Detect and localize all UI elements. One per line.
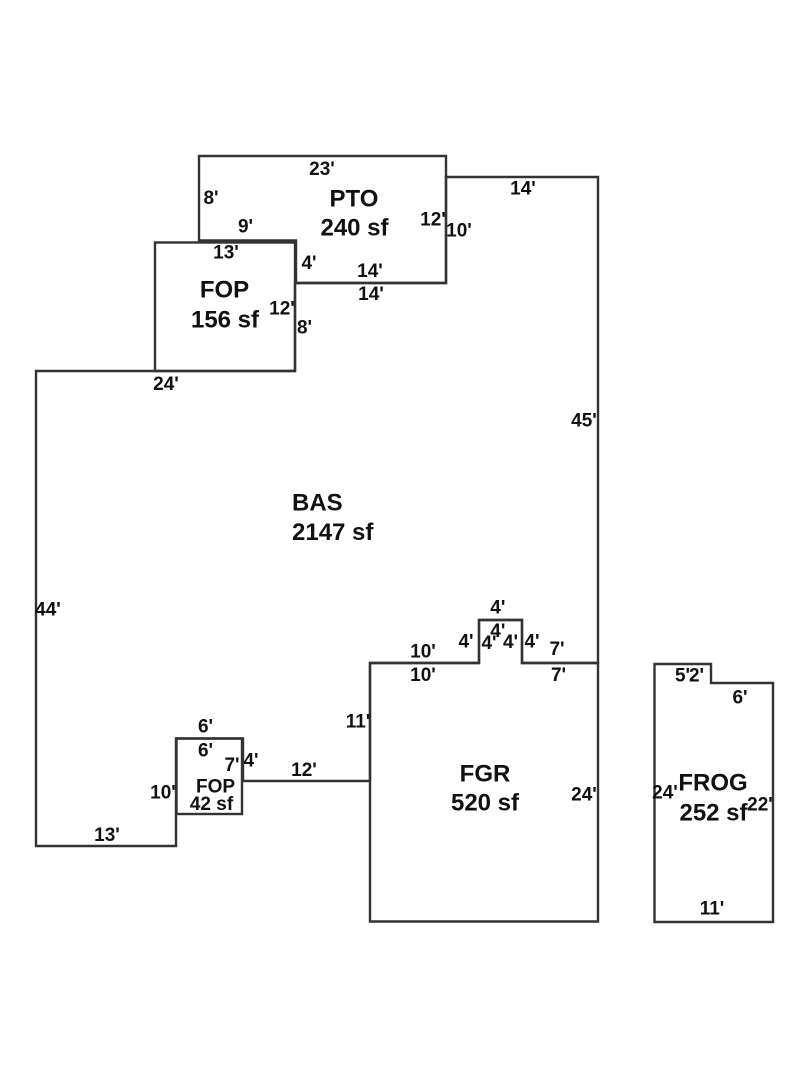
svg-text:14': 14' <box>357 261 383 282</box>
svg-text:6': 6' <box>198 741 213 762</box>
svg-text:6': 6' <box>198 717 213 738</box>
svg-text:10': 10' <box>446 221 472 242</box>
svg-text:FGR: FGR <box>460 761 511 788</box>
svg-text:22': 22' <box>747 795 773 816</box>
svg-text:10': 10' <box>410 642 436 663</box>
FROG outline <box>655 664 774 922</box>
svg-text:FROG: FROG <box>678 770 747 797</box>
svg-text:44': 44' <box>35 600 61 621</box>
svg-text:240 sf: 240 sf <box>320 215 389 242</box>
svg-text:PTO: PTO <box>330 186 379 213</box>
svg-text:2': 2' <box>689 666 704 687</box>
svg-text:FOP: FOP <box>200 277 249 304</box>
svg-text:4': 4' <box>490 598 505 619</box>
svg-text:4': 4' <box>524 632 539 653</box>
svg-text:4': 4' <box>458 632 473 653</box>
svg-text:42 sf: 42 sf <box>190 794 234 815</box>
svg-text:13': 13' <box>94 825 120 846</box>
svg-text:45': 45' <box>571 411 597 432</box>
svg-text:11': 11' <box>346 712 371 733</box>
svg-text:520 sf: 520 sf <box>451 790 520 817</box>
svg-text:252 sf: 252 sf <box>679 800 748 827</box>
svg-text:24': 24' <box>571 785 597 806</box>
svg-text:4': 4' <box>243 751 258 772</box>
svg-text:7': 7' <box>549 639 564 660</box>
svg-text:10': 10' <box>410 665 436 686</box>
svg-text:5': 5' <box>675 666 690 687</box>
svg-text:23': 23' <box>309 159 335 180</box>
svg-text:12': 12' <box>291 760 317 781</box>
PTO outline <box>199 156 446 283</box>
svg-text:156 sf: 156 sf <box>191 307 260 334</box>
svg-text:24': 24' <box>652 783 678 804</box>
svg-text:12': 12' <box>420 210 446 231</box>
svg-text:4': 4' <box>503 632 518 653</box>
svg-text:7': 7' <box>224 755 239 776</box>
svg-text:13': 13' <box>213 243 239 264</box>
svg-text:14': 14' <box>510 179 536 200</box>
svg-text:11': 11' <box>700 899 725 920</box>
svg-text:4': 4' <box>481 633 496 654</box>
svg-text:6': 6' <box>732 688 747 709</box>
BAS outline <box>36 177 598 846</box>
svg-text:10': 10' <box>150 783 176 804</box>
svg-text:7': 7' <box>551 665 566 686</box>
svg-text:9': 9' <box>238 217 253 238</box>
svg-text:14': 14' <box>358 284 384 305</box>
svg-text:12': 12' <box>269 299 295 320</box>
svg-text:4': 4' <box>301 253 316 274</box>
FOP 156 outline <box>155 243 295 372</box>
svg-text:BAS: BAS <box>292 490 343 517</box>
svg-text:2147 sf: 2147 sf <box>292 519 374 546</box>
svg-text:8': 8' <box>297 318 312 339</box>
svg-text:24': 24' <box>153 374 179 395</box>
FOP 42 outline <box>177 739 243 815</box>
svg-text:8': 8' <box>203 188 218 209</box>
FGR outline <box>370 620 598 922</box>
